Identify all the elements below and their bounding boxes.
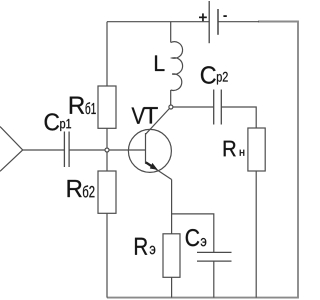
resistor Rb1 body: [98, 86, 116, 128]
transistor VT circle: [128, 129, 171, 172]
wire: emitter down to Re through emitter node: [171, 180, 173, 234]
capacitor Ce top plate: [197, 251, 232, 253]
label Rб1: [70, 97, 96, 114]
battery GB short plate: [217, 9, 219, 35]
wire: left rail down to Rb1: [106, 22, 108, 86]
label Rб2: [68, 180, 95, 197]
label L: [155, 55, 164, 70]
wire: Cp2 to Rn: [221, 107, 256, 128]
capacitor Cp2 right plate: [220, 90, 222, 125]
label VT: [132, 107, 158, 124]
capacitor Cp1 left plate: [63, 132, 65, 168]
transistor VT emitter lead: [146, 162, 172, 179]
wire: input to Cp1: [23, 149, 65, 151]
label Rэ: [135, 238, 155, 255]
label + polarity: [199, 13, 207, 21]
resistor Rb2 body: [98, 171, 116, 213]
wire: top supply rail left of battery: [107, 21, 209, 23]
label - polarity: [223, 15, 226, 17]
transistor VT emitter arrow stem: [146, 162, 154, 167]
wire: node B to Cp2: [171, 106, 214, 108]
wire: grey outer rail (top-right, right side, bottom): [107, 22, 298, 298]
wire: top rail down to inductor: [170, 22, 172, 43]
battery GB long plate: [208, 1, 210, 43]
label Cp2: [201, 66, 228, 84]
wire: Rn bottom to bottom rail: [255, 171, 257, 298]
transistor VT emitter arrow head: [150, 163, 158, 170]
node B junction circle: [169, 105, 173, 109]
capacitor Ce bottom plate: [197, 260, 232, 262]
wire: Rb2 bottom to bottom rail: [106, 213, 108, 297]
transistor VT collector lead: [146, 107, 171, 134]
transistor VT base bar: [145, 133, 147, 164]
node A junction circle: [105, 148, 109, 152]
input terminal chevron: [0, 127, 23, 172]
resistor Rn body: [248, 128, 265, 171]
wire: coil bottom to node B: [170, 90, 172, 107]
wire: Re bottom to bottom rail: [171, 277, 173, 297]
inductor L coil: [171, 42, 183, 91]
capacitor Cp2 left plate: [213, 90, 215, 125]
wire: emitter node branch to Ce: [172, 214, 214, 253]
wire: top supply rail right of battery: [218, 21, 259, 23]
resistor Re body: [163, 234, 180, 277]
wire: Cp1 to transistor base through node A: [69, 149, 145, 151]
capacitor Cp1 right plate: [68, 132, 70, 168]
label Rн: [224, 141, 245, 156]
wire: Ce bottom to bottom rail: [213, 261, 215, 298]
label Cэ: [186, 229, 207, 246]
wire: Rb1 bottom to Rb2 top through node A: [106, 128, 108, 171]
label Cp1: [45, 113, 71, 131]
